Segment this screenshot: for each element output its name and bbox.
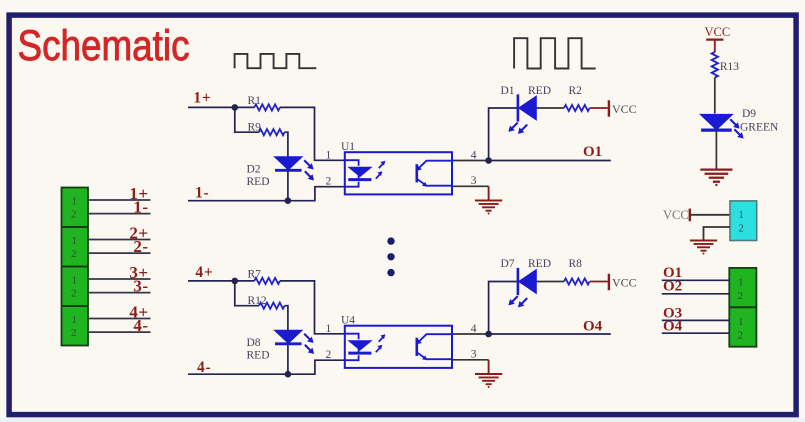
svg-text:1: 1 [326,149,332,161]
svg-text:1+: 1+ [193,89,211,106]
svg-text:R9: R9 [248,122,262,134]
svg-text:VCC: VCC [612,102,637,116]
svg-text:2: 2 [739,224,744,235]
svg-text:R12: R12 [248,295,267,307]
svg-text:RED: RED [247,350,270,362]
svg-text:O4: O4 [583,319,603,335]
svg-text:RED: RED [528,258,551,270]
svg-text:R8: R8 [569,258,583,270]
svg-text:2: 2 [71,288,77,300]
svg-text:D8: D8 [247,337,261,349]
svg-text:R2: R2 [569,85,583,97]
svg-text:4-: 4- [133,316,148,335]
svg-text:1: 1 [72,314,78,326]
svg-text:4: 4 [471,149,477,161]
svg-text:U1: U1 [341,141,355,153]
svg-text:3-: 3- [133,276,148,295]
svg-text:VCC: VCC [663,208,689,222]
svg-text:D2: D2 [247,164,261,176]
svg-text:1: 1 [739,210,744,221]
svg-text:RED: RED [528,85,551,97]
svg-text:VCC: VCC [705,25,731,39]
svg-text:D7: D7 [501,258,515,270]
svg-text:O1: O1 [583,144,602,160]
svg-text:3: 3 [471,175,477,187]
svg-text:U4: U4 [341,315,355,327]
svg-text:GREEN: GREEN [740,122,779,134]
svg-text:Schematic: Schematic [18,23,190,70]
svg-text:3: 3 [471,349,477,361]
svg-text:2: 2 [738,330,744,342]
svg-text:D9: D9 [742,108,756,120]
svg-text:VCC: VCC [612,276,637,290]
svg-text:4-: 4- [197,359,212,376]
svg-text:2: 2 [71,248,77,260]
svg-text:2: 2 [326,349,332,361]
svg-text:D1: D1 [501,85,515,97]
svg-text:1: 1 [738,277,744,289]
svg-text:2: 2 [326,175,332,187]
svg-text:R7: R7 [248,269,262,281]
svg-text:1: 1 [326,323,332,335]
svg-text:1-: 1- [133,197,148,216]
svg-text:O4: O4 [663,318,683,334]
svg-text:4+: 4+ [195,264,213,281]
svg-text:1: 1 [738,316,744,328]
svg-text:O2: O2 [663,279,682,295]
svg-text:1: 1 [72,235,78,247]
svg-text:1: 1 [72,275,78,287]
svg-text:R13: R13 [720,61,739,73]
svg-text:2: 2 [738,290,744,302]
svg-text:R1: R1 [248,95,262,107]
svg-text:RED: RED [247,176,270,188]
svg-text:1-: 1- [195,185,210,202]
svg-text:2-: 2- [133,237,148,256]
svg-text:2: 2 [71,327,77,339]
svg-text:2: 2 [71,209,77,221]
svg-text:1: 1 [72,196,78,208]
svg-text:4: 4 [471,323,477,335]
